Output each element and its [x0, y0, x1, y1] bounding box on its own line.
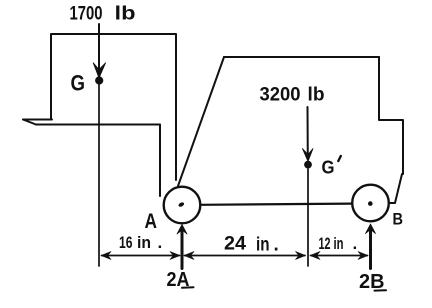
wheel B hub dot [368, 201, 373, 206]
svg-text:16: 16 [119, 233, 133, 252]
reaction arrow 2A head [177, 225, 187, 235]
svg-text:24: 24 [224, 234, 246, 255]
label G' prime tick [338, 156, 341, 161]
dimension arrow left at G' line [310, 252, 320, 260]
svg-text:.: . [353, 234, 358, 253]
reaction arrow 2B shaft [369, 231, 372, 269]
svg-text:3200: 3200 [260, 85, 301, 106]
body rear diagonal to wheel B [389, 174, 402, 203]
fork upper edge [23, 119, 52, 121]
label 2A underline [182, 286, 194, 289]
wire G centerline down [98, 84, 100, 266]
label 2B underline [375, 289, 387, 291]
dimension line 16 in segment [102, 255, 180, 257]
dimension arrow left at G line [101, 252, 111, 260]
fork lower edge [36, 124, 160, 126]
svg-text:.: . [274, 235, 279, 256]
body rear box outline [51, 34, 176, 180]
svg-text:G: G [322, 158, 335, 178]
fork tip [23, 120, 36, 125]
svg-text:in: in [137, 233, 151, 252]
svg-text:1700: 1700 [70, 4, 103, 25]
dimension line 12 in segment [311, 255, 368, 257]
force arrow 3200 lb shaft [307, 107, 309, 159]
svg-text:12: 12 [319, 234, 331, 253]
svg-text:A: A [145, 210, 158, 233]
svg-text:.: . [158, 233, 163, 252]
wheel A [164, 187, 201, 224]
body right step [379, 57, 403, 174]
force arrow 1700 lb head [93, 63, 105, 78]
wheel A hub dot [178, 202, 185, 208]
cab windshield diagonal [178, 57, 224, 186]
svg-text:B: B [393, 210, 404, 229]
dimension arrow right at G' line [296, 252, 306, 260]
svg-text:in: in [334, 234, 344, 253]
chassis axle line [201, 204, 353, 205]
node G' dot [304, 161, 312, 169]
svg-text:in: in [256, 235, 270, 256]
reaction arrow 2A shaft [181, 231, 184, 269]
dimension arrow right at A line [170, 252, 180, 260]
svg-text:G: G [71, 71, 86, 96]
svg-text:lb: lb [308, 85, 325, 106]
force arrow 3200 lb head [302, 149, 313, 162]
svg-text:lb: lb [115, 4, 136, 25]
reaction arrow 2B head [366, 224, 376, 234]
fork back vertical [159, 125, 161, 197]
dimension line 24 in segment [185, 255, 306, 257]
cab roof line [224, 56, 379, 58]
force arrow 1700 lb shaft [98, 24, 100, 74]
node G dot [95, 76, 103, 84]
wheel B [352, 185, 389, 222]
wire G' centerline down [307, 169, 309, 266]
dimension arrow right at B line [358, 252, 368, 260]
dimension arrow left at A line [184, 252, 194, 260]
